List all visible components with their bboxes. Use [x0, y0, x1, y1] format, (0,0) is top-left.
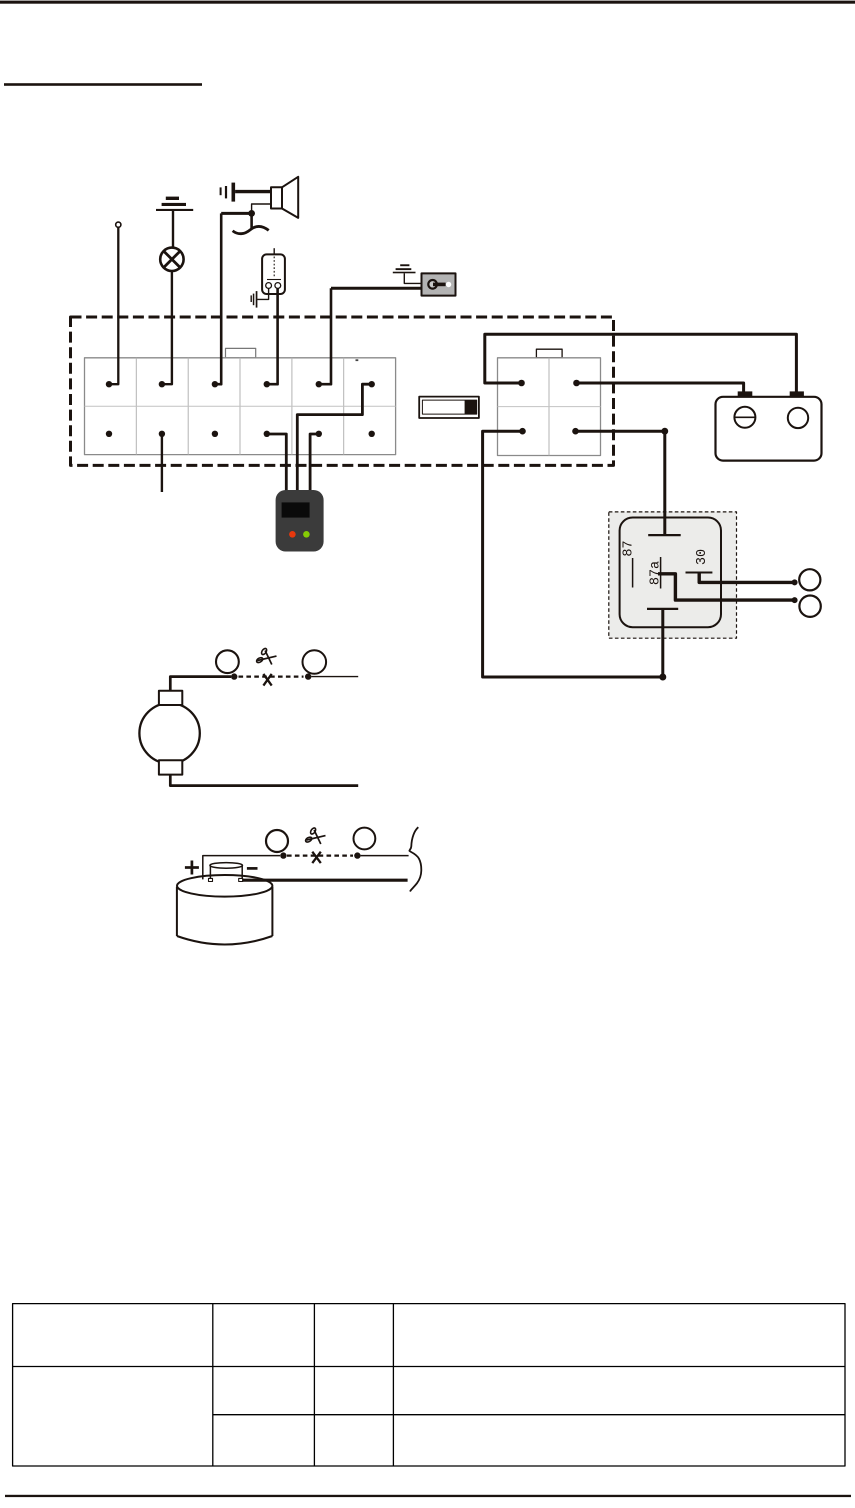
ring terminal pump R [354, 828, 376, 850]
wire ground to lamp [172, 211, 174, 248]
node horn junction [248, 210, 255, 217]
horn lead thin [252, 204, 271, 211]
ring terminal 30 [799, 569, 820, 590]
wire motor bottom [170, 775, 358, 786]
remote LED green [303, 531, 310, 538]
scissors pump [305, 827, 326, 844]
relay pin 85 bar [647, 608, 678, 610]
pump plus [185, 866, 199, 869]
wire to relay coil [576, 431, 665, 535]
wire pump feed thin [361, 855, 409, 857]
wire +12V to battery right terminal [485, 334, 797, 391]
starter motor M1 [139, 703, 199, 763]
ring terminal motor L [216, 650, 239, 673]
node cut A1 [231, 673, 237, 679]
node relay coil T [661, 428, 668, 435]
left connector block [85, 358, 396, 455]
ground (sensor) [251, 291, 258, 308]
sensor terminal L [266, 283, 272, 289]
speck [356, 359, 359, 361]
sensor dashed axis [273, 257, 275, 278]
wire switch horizontal [331, 287, 422, 290]
wire coil top inside relay [663, 511, 666, 535]
ring terminal 87a [799, 596, 820, 617]
scissors motor [256, 648, 277, 665]
indicator lamp [160, 248, 183, 271]
horn mount bar [235, 190, 271, 193]
main unit dashed box [71, 317, 614, 465]
left connector notch [226, 348, 256, 357]
wire horn junction left [221, 212, 251, 215]
remote transmitter [276, 490, 324, 552]
wire pump minus [242, 879, 407, 882]
wire pin6 to remote [297, 384, 371, 491]
cut X motor [263, 674, 271, 686]
wire pin87a out [658, 574, 795, 600]
pump minus [247, 867, 258, 870]
fuel pump tank [177, 875, 272, 897]
wire pin30 out [699, 573, 794, 583]
antenna terminal circle [116, 222, 121, 227]
heading underline [4, 83, 202, 86]
wire switch to pin5 [320, 288, 331, 384]
relay contact 87 [632, 558, 634, 588]
right connector notch [536, 349, 562, 358]
ground (valet switch) [393, 264, 416, 273]
wire ground to switch [404, 273, 427, 283]
ground (horn bracket) [220, 183, 236, 202]
node cut B1 [280, 852, 286, 858]
svg-text:30: 30 [695, 549, 710, 565]
key tip [446, 282, 451, 287]
relay pin 30 bar [686, 572, 713, 574]
relay pin 86 bar [648, 534, 681, 536]
key shaft [433, 283, 446, 287]
svg-text:87: 87 [621, 540, 636, 556]
wire horn to pin3 [216, 213, 221, 384]
wire ground run to relay junction [483, 431, 663, 677]
horn cone [282, 177, 298, 218]
pins right connector [518, 380, 580, 435]
table [13, 1304, 845, 1466]
sensor bar [267, 279, 281, 281]
pump cap [210, 863, 243, 869]
node ground junction [659, 674, 666, 681]
ring terminal motor R [303, 650, 327, 674]
battery BT1 [716, 397, 822, 461]
wire sensor to pin4 [268, 288, 278, 384]
cut dashed pump [287, 854, 353, 856]
relay contact 87a [660, 557, 662, 589]
wire motor feed thin [311, 676, 358, 678]
cut dashed motor [239, 675, 304, 677]
wire pin5 to remote [310, 434, 319, 491]
wire pin2 stub [161, 434, 163, 492]
valet key switch [422, 273, 456, 295]
horn driver [271, 187, 282, 208]
remote LED red [289, 531, 296, 538]
page bottom rule [5, 1495, 851, 1497]
sensor terminal R [275, 283, 281, 289]
horn stub [250, 213, 253, 229]
wire pump plus [203, 856, 280, 880]
pins left connector bottom row [106, 431, 375, 437]
cut X pump [312, 852, 321, 863]
pins left connector top row [106, 381, 375, 387]
node pin87a lug [792, 597, 798, 603]
status LED bezel [419, 397, 479, 418]
harness brace [409, 827, 421, 891]
key ring [428, 280, 437, 289]
ring terminal pump L [266, 830, 288, 852]
node cut A2 [305, 673, 311, 679]
wire lamp to pin2 [163, 271, 172, 384]
node cut B2 [354, 852, 360, 858]
relay K1 dashed box [609, 512, 737, 638]
horn flex wire wavy [233, 226, 269, 233]
right connector block [498, 358, 601, 456]
ground (lamp) [156, 197, 193, 211]
page top rule [0, 1, 855, 4]
wire motor top [170, 677, 231, 691]
shock sensor stub [273, 248, 275, 254]
wire antenna to pin1 [110, 227, 118, 384]
wire relay to ground junction [661, 609, 664, 677]
wire pin4 to remote [267, 434, 287, 491]
wire to battery left terminal [577, 383, 744, 392]
relay body [620, 518, 721, 628]
shock sensor body [262, 254, 285, 294]
wire sensor to ground [257, 288, 268, 299]
node pin30 lug [792, 579, 798, 585]
